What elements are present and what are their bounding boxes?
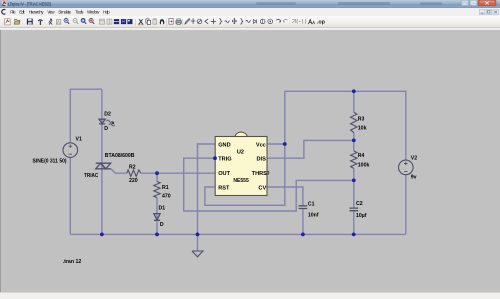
svg-text:D: D <box>160 222 164 228</box>
svg-text:D1: D1 <box>159 205 166 211</box>
svg-text:Help: Help <box>103 10 110 15</box>
svg-text:D: D <box>104 126 108 132</box>
svg-text:GND: GND <box>218 142 230 148</box>
svg-text:220: 220 <box>129 178 138 184</box>
svg-text:D2: D2 <box>104 111 111 117</box>
svg-text:10nf: 10nf <box>308 212 319 218</box>
svg-text:.tran 12: .tran 12 <box>63 259 82 265</box>
svg-text:Vcc: Vcc <box>256 142 266 148</box>
svg-text:File: File <box>10 10 16 15</box>
svg-text:10k: 10k <box>358 126 367 132</box>
svg-text:TRIG: TRIG <box>218 157 231 163</box>
svg-text:Window: Window <box>87 10 100 15</box>
svg-text:Tools: Tools <box>75 10 83 15</box>
svg-text:R3: R3 <box>358 117 365 123</box>
svg-text:V2: V2 <box>411 155 417 161</box>
svg-text:10µf: 10µf <box>356 213 367 219</box>
svg-text:100k: 100k <box>358 162 370 168</box>
svg-text:NE555: NE555 <box>233 178 248 184</box>
svg-text:View: View <box>47 10 55 15</box>
svg-text:9v: 9v <box>411 174 417 180</box>
svg-text:U2: U2 <box>237 149 244 155</box>
svg-text:470: 470 <box>162 194 171 200</box>
svg-text:C1: C1 <box>308 201 315 207</box>
svg-text:OUT: OUT <box>218 171 230 177</box>
svg-text:Hierarchy: Hierarchy <box>29 10 44 15</box>
svg-text:BTA08/600B: BTA08/600B <box>105 153 135 159</box>
svg-text:C2: C2 <box>356 201 363 207</box>
svg-text:V1: V1 <box>76 137 82 143</box>
svg-text:SINE(0 311 50): SINE(0 311 50) <box>33 159 67 165</box>
svg-text:Simulate: Simulate <box>58 10 72 15</box>
svg-text:THRS: THRS <box>252 171 267 177</box>
svg-text:R1: R1 <box>162 185 169 191</box>
svg-text:Edit: Edit <box>19 10 25 15</box>
svg-text:LTspice IV - [TRIAC NE555]: LTspice IV - [TRIAC NE555] <box>8 2 51 7</box>
svg-text:RST: RST <box>218 185 230 191</box>
svg-text:.op: .op <box>317 19 326 25</box>
svg-text:DIS: DIS <box>256 157 266 163</box>
svg-text:R4: R4 <box>358 153 365 159</box>
svg-text:TRIAC: TRIAC <box>84 173 99 179</box>
svg-text:R2: R2 <box>129 165 136 171</box>
svg-text:CV: CV <box>258 185 266 191</box>
